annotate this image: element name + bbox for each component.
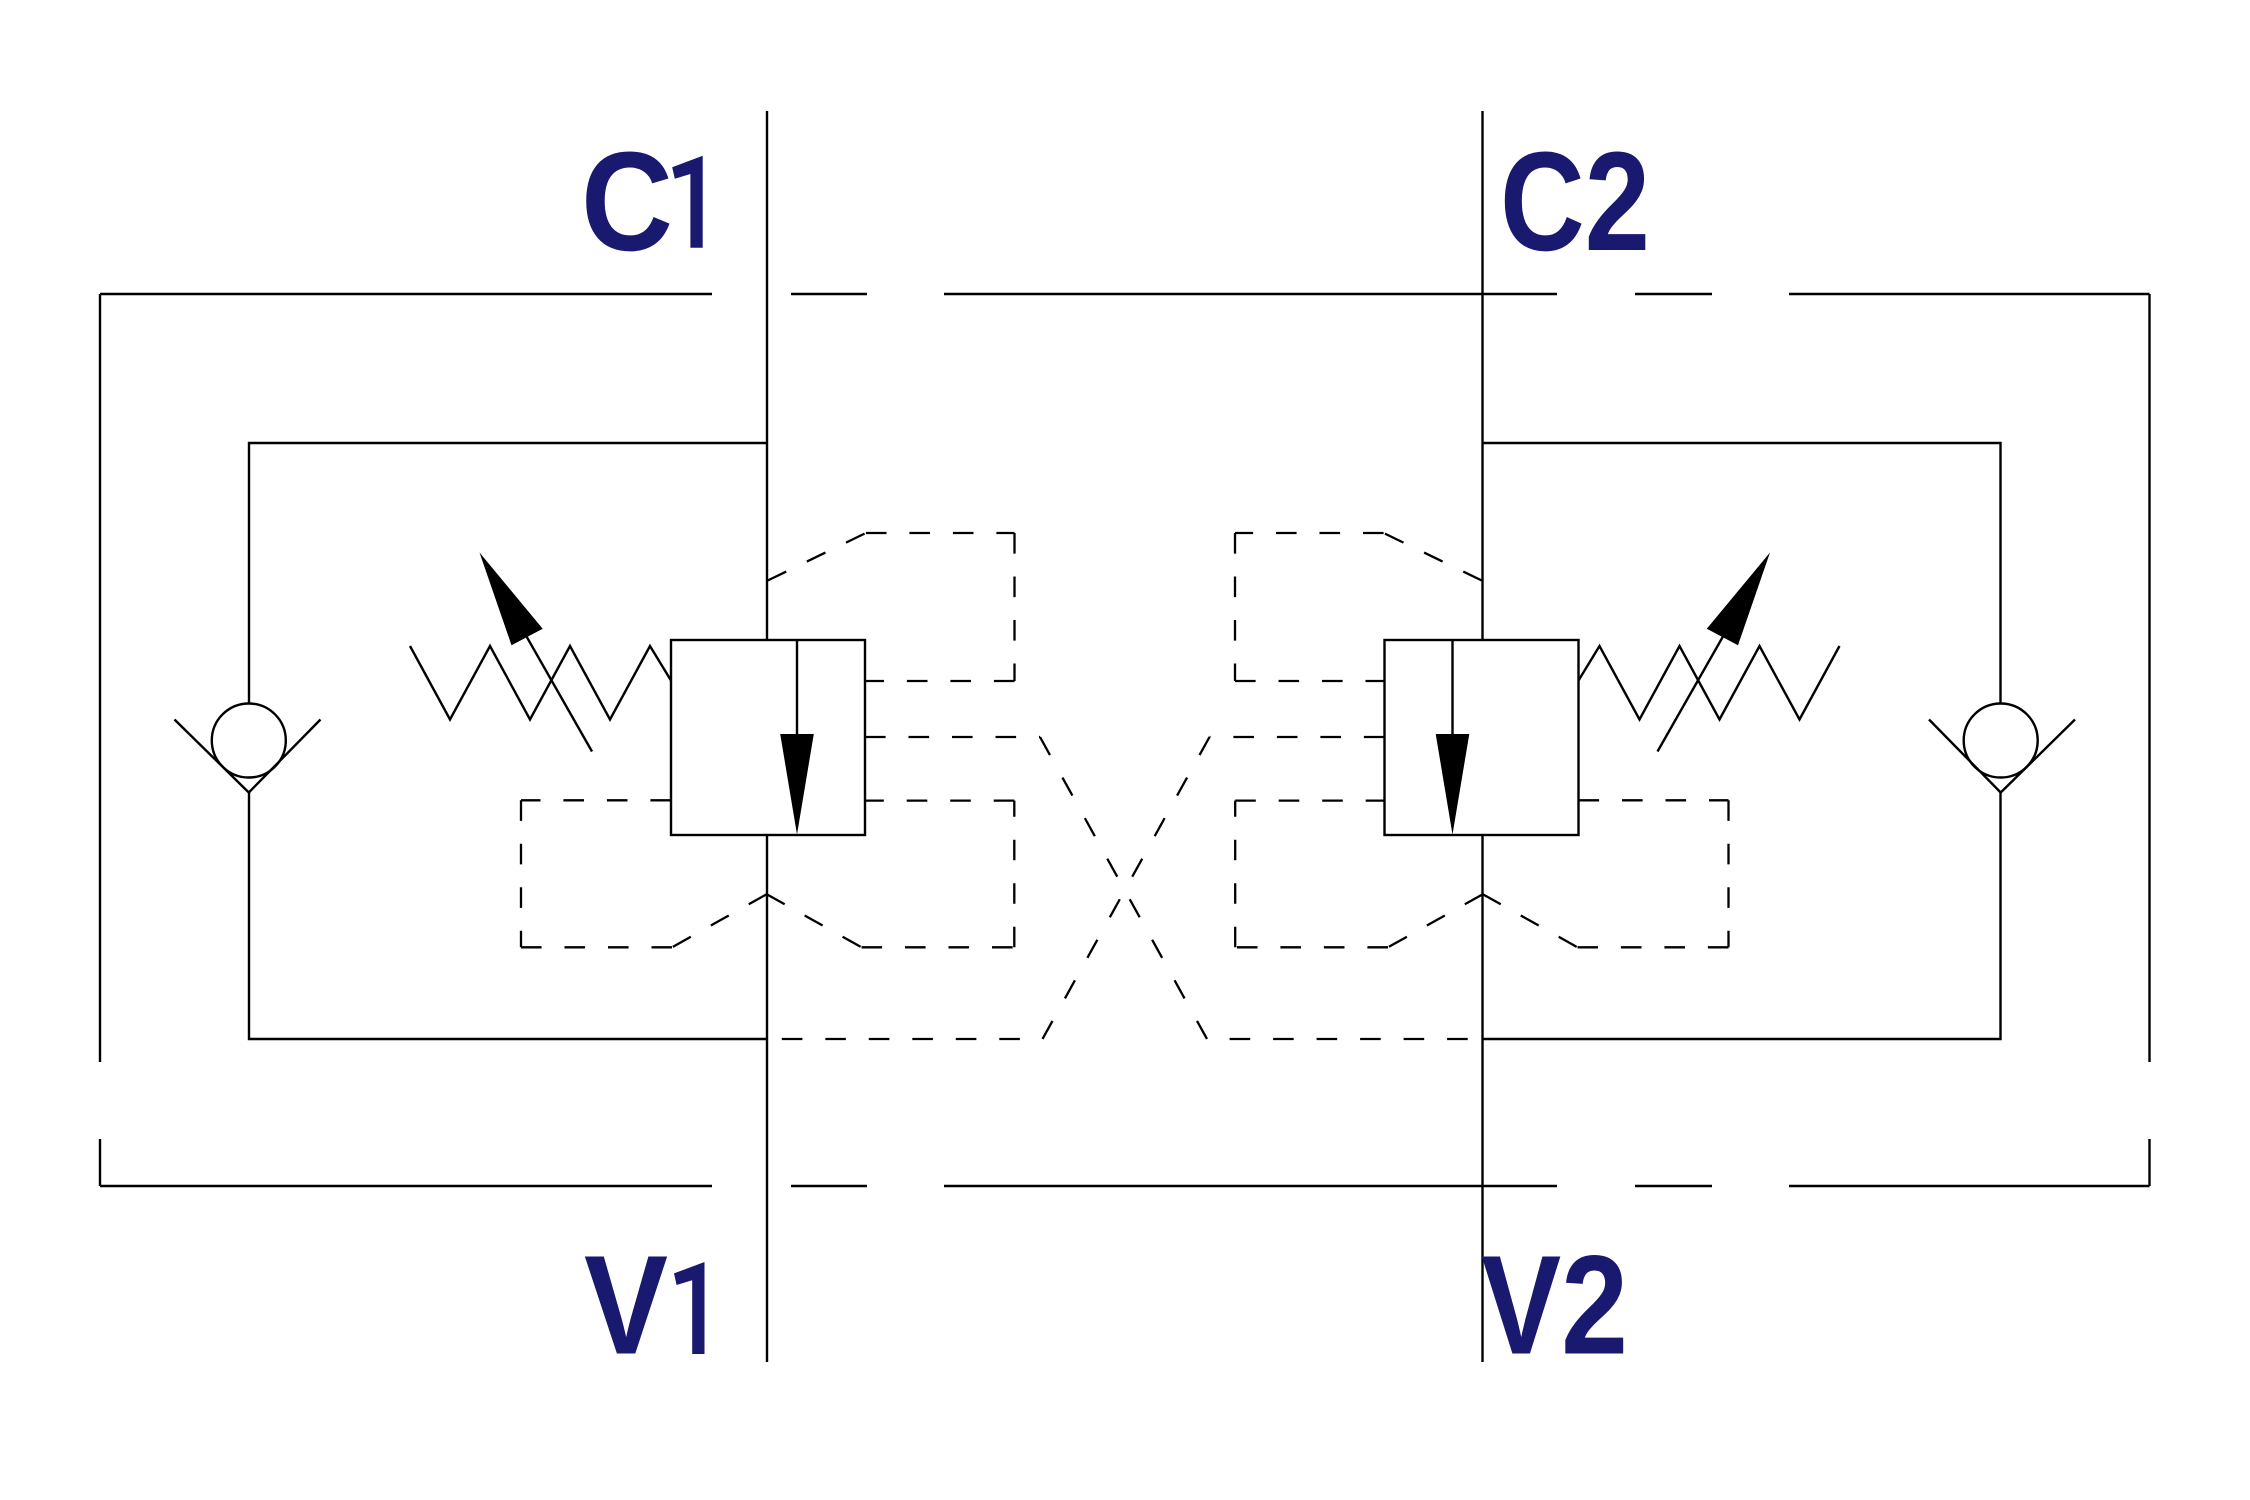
adjustment arrow head, valve V2 xyxy=(1707,553,1770,646)
svg-text:C2: C2 xyxy=(1500,122,1650,280)
port line C1 (upper segment of C1-V1 line) xyxy=(766,111,768,640)
outer valve-body boundary, top edge (long-dash) xyxy=(100,293,712,295)
pilot/drain gallery around valve V1 bottom (dashed box with tent over V1 line) xyxy=(521,799,671,801)
port line V2 (lower segment of C2-V2 line) xyxy=(1481,835,1483,1362)
wire: left internal circuit loop (solid U between C1 line and check valve CV1) xyxy=(249,443,767,704)
port line V1 (lower segment of C1-V1 line) xyxy=(766,835,768,1362)
outer valve-body boundary, left edge xyxy=(99,294,101,1062)
check valve CV1, ball xyxy=(212,704,286,778)
check valve CV2, seat xyxy=(1929,720,2075,793)
spring of valve V2 (adjustable) xyxy=(1579,646,1840,720)
counterbalance valve V1 envelope (square) xyxy=(671,640,865,835)
valve V1 internal flow arrow (down) xyxy=(780,734,814,835)
adjustment arrow shaft, valve V1 xyxy=(512,611,592,752)
check valve CV1, seat xyxy=(175,720,321,793)
adjustment arrow shaft, valve V2 xyxy=(1658,611,1738,752)
adjustment arrow head, valve V1 xyxy=(480,553,543,646)
pilot/drain gallery around valve V2 bottom (dashed box with tent over V2 line) xyxy=(1579,799,1729,801)
pilot line: valve V2 remote pilot from V1 line (dashed, crosses in X) xyxy=(1210,736,1385,738)
wire: right internal circuit loop (solid U between C2 line and check valve CV2) xyxy=(1483,443,2001,704)
pilot line: C2 sense hood above valve V2 (dashed) xyxy=(1384,533,1482,581)
counterbalance valve V2 envelope (square) xyxy=(1385,640,1579,835)
outer valve-body boundary, bottom edge (long-dash) xyxy=(100,1185,712,1187)
outer valve-body boundary, right edge xyxy=(2148,294,2150,1062)
port line C2 (upper segment of C2-V2 line) xyxy=(1481,111,1483,640)
svg-text:C: C xyxy=(581,122,673,280)
valve V2 internal flow path line xyxy=(1451,640,1453,736)
check valve CV2, ball xyxy=(1964,704,2038,778)
spring of valve V1 (adjustable) xyxy=(410,646,671,720)
pilot line: valve V1 remote pilot from V2 line (dashed, crosses in X) xyxy=(865,736,1040,738)
svg-text:V2: V2 xyxy=(1481,1226,1628,1384)
pilot line: C1 sense hood above valve V1 (dashed) xyxy=(768,533,866,581)
svg-text:V: V xyxy=(584,1226,668,1384)
valve V1 internal flow path line xyxy=(796,640,798,736)
valve V2 internal flow arrow (down) xyxy=(1436,734,1470,835)
